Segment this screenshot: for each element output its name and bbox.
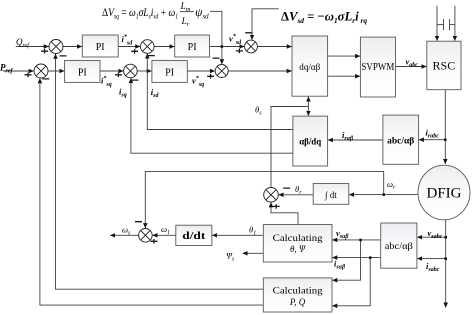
svg-text:PI: PI (96, 42, 105, 53)
svg-text:d/dt: d/dt (182, 231, 206, 242)
sum4 plus minus (115, 73, 138, 81)
blocks (65, 35, 470, 312)
svg-text:PI: PI (165, 67, 174, 78)
block abc/ab stator (381, 223, 417, 268)
wire sum3 to PI2 (48, 70, 64, 72)
block PI4 (152, 60, 187, 82)
svg-text:i*sd: i*sd (122, 34, 134, 47)
svg-text:Qref: Qref (16, 37, 30, 49)
sum5 vsq (215, 65, 228, 78)
svg-text:isq: isq (119, 87, 127, 99)
wire isq feedback from ab/dq to sum4 (131, 78, 293, 153)
svg-text:RSC: RSC (433, 59, 456, 73)
block integrator (313, 184, 349, 205)
wire theta1 from Calculating box top to sum-theta (271, 203, 298, 225)
block PI2 (65, 60, 100, 82)
wire PI3 to sum6, label v*sd (210, 46, 245, 48)
svg-text:ΔVsd = −ω1σLri rq: ΔVsd = −ω1σLri rq (281, 9, 367, 26)
sum3 plus minus (25, 73, 50, 79)
wire P feedback from Calculating PQ to sum3 (40, 78, 263, 305)
svg-text:i*sq: i*sq (101, 75, 112, 88)
wire theta_s branch down to ab/dq (307, 107, 309, 116)
sum2 plus minus (131, 49, 155, 56)
svg-text:abc/αβ: abc/αβ (387, 136, 414, 146)
sum3 P (34, 64, 48, 78)
svg-text:Lr: Lr (181, 17, 190, 28)
block abc/ab rotor (383, 115, 419, 164)
wire DC link right (454, 6, 456, 41)
svg-text:Calculating: Calculating (273, 233, 324, 243)
svg-text:v*sd: v*sd (229, 33, 242, 46)
block Calculating PQ (263, 278, 332, 312)
block PI3 (175, 35, 210, 57)
svg-text:isαβ: isαβ (334, 259, 346, 271)
wire irab from abc/ab to ab/dq (328, 139, 383, 141)
svg-text:θ1: θ1 (249, 225, 256, 237)
wire vsabc tap to abc/ab bottom block (417, 236, 445, 238)
wire DFIG stator down (445, 220, 447, 308)
svg-text:ωs: ωs (122, 225, 131, 237)
wire sum4 to PI4 (137, 70, 151, 72)
sum omega plus minus (135, 222, 157, 244)
wire theta1 to d/dt (212, 234, 263, 236)
plus minus signs (25, 33, 291, 244)
block SVPWM (360, 37, 395, 97)
sum6 vsd (245, 40, 258, 53)
wire PI4 to sum5, label v*sq (187, 70, 215, 72)
svg-text:Calculating: Calculating (273, 286, 324, 296)
sum omega (139, 229, 153, 243)
signal labels (0, 33, 443, 273)
sum2 isd (141, 40, 155, 54)
sum5 plus minus (207, 58, 220, 79)
wire sum1 to PI1 (63, 46, 82, 48)
svg-text:ψsd: ψsd (195, 5, 209, 21)
wire integrator to sum-theta, label theta_r (279, 194, 314, 196)
wire vsab to Calculating thetaPsi (332, 239, 380, 241)
svg-text:v*sq: v*sq (192, 75, 204, 88)
sum4 isq (124, 64, 138, 78)
wire sum5 to dq/ab block (228, 70, 291, 72)
wire psi_s output (243, 252, 264, 254)
wire omega_r from DFIG to integrator (349, 194, 418, 196)
wire SVPWM to RSC, label vabc (396, 66, 427, 68)
svg-text:irαβ: irαβ (342, 130, 354, 142)
wire sum2 to PI3 (154, 46, 174, 48)
wire isab branch to Calculating PQ (332, 258, 370, 306)
wire DC link left (436, 6, 438, 41)
sum1 Q (49, 40, 63, 54)
wire dq/ab to SVPWM upper (328, 55, 360, 57)
block RSC (427, 41, 461, 89)
wire RSC to DFIG (444, 90, 446, 164)
wire vsab branch to Calculating PQ (332, 240, 360, 280)
sum theta (264, 188, 279, 203)
svg-text:vsαβ: vsαβ (336, 228, 349, 240)
wire deltaVsq formula to sum5 (210, 11, 222, 64)
svg-text:PI: PI (188, 42, 197, 53)
svg-text:SVPWM: SVPWM (361, 62, 394, 73)
svg-text:∫ dt: ∫ dt (324, 190, 337, 201)
wire dq/ab to SVPWM lower (328, 75, 360, 77)
block Calculating theta psi (263, 225, 332, 263)
wire deltaVsd formula to sum6 (252, 9, 279, 40)
svg-text:Pref: Pref (0, 63, 13, 75)
svg-text:irabc: irabc (426, 128, 440, 140)
wire theta_s route from sum-theta up (271, 107, 308, 188)
svg-text:abc/αβ: abc/αβ (385, 242, 413, 252)
sum6 plus minus (236, 33, 252, 53)
wire omega_r branch to sum-omega (145, 171, 383, 228)
formula deltaVsq (102, 2, 209, 28)
svg-text:ΔVsq = ω1σLsisd + ω1: ΔVsq = ω1σLsisd + ω1 (102, 5, 178, 21)
sum1 plus minus (41, 49, 66, 56)
wire sum6 to dq/ab block (257, 46, 291, 48)
wire isabc tap to abc/ab bottom block (417, 258, 445, 260)
wire Qref to sum1 (16, 46, 49, 48)
block texts (78, 42, 462, 307)
sum theta plus minus (273, 188, 291, 209)
wire Pref to sum3 (3, 70, 34, 72)
svg-text:isd: isd (151, 87, 160, 99)
svg-text:isabc: isabc (426, 261, 440, 273)
svg-text:dq/αβ: dq/αβ (299, 62, 320, 72)
wire PI2 to sum4, label i*sq (100, 70, 123, 72)
wire PI1 to sum2, label i*sd (118, 46, 140, 48)
block d/dt (176, 225, 212, 245)
wire d/dt to sum-omega, label omega1 (153, 234, 176, 236)
wire isab to Calculating thetaPsi (332, 257, 380, 259)
machine DFIG (418, 165, 470, 220)
block dq/ab (292, 36, 328, 96)
wire omega_s output (110, 234, 138, 236)
wire isd feedback from ab/dq to sum2 (147, 54, 293, 130)
svg-text:P, Q: P, Q (289, 297, 306, 307)
block PI1 (82, 35, 118, 57)
svg-text:αβ/dq: αβ/dq (299, 137, 321, 147)
svg-text:ω1: ω1 (161, 224, 170, 236)
svg-text:θr: θr (295, 184, 302, 196)
wire irabc tap to abc/ab top block (419, 139, 445, 141)
svg-text:θ, Ψ: θ, Ψ (290, 244, 306, 254)
wire theta_s branch up to dq/ab (307, 97, 309, 107)
capacitor plates (443, 19, 445, 30)
wire Q feedback from Calculating PQ to sum1 (56, 54, 264, 289)
block ab/dq (293, 116, 328, 166)
svg-text:θs: θs (255, 105, 262, 117)
svg-text:Ψs: Ψs (226, 251, 235, 263)
summing junctions (34, 40, 278, 243)
svg-text:DFIG: DFIG (426, 186, 461, 202)
svg-text:PI: PI (78, 67, 87, 78)
svg-text:ωr: ωr (387, 179, 396, 191)
svg-text:vsabc: vsabc (428, 228, 443, 240)
